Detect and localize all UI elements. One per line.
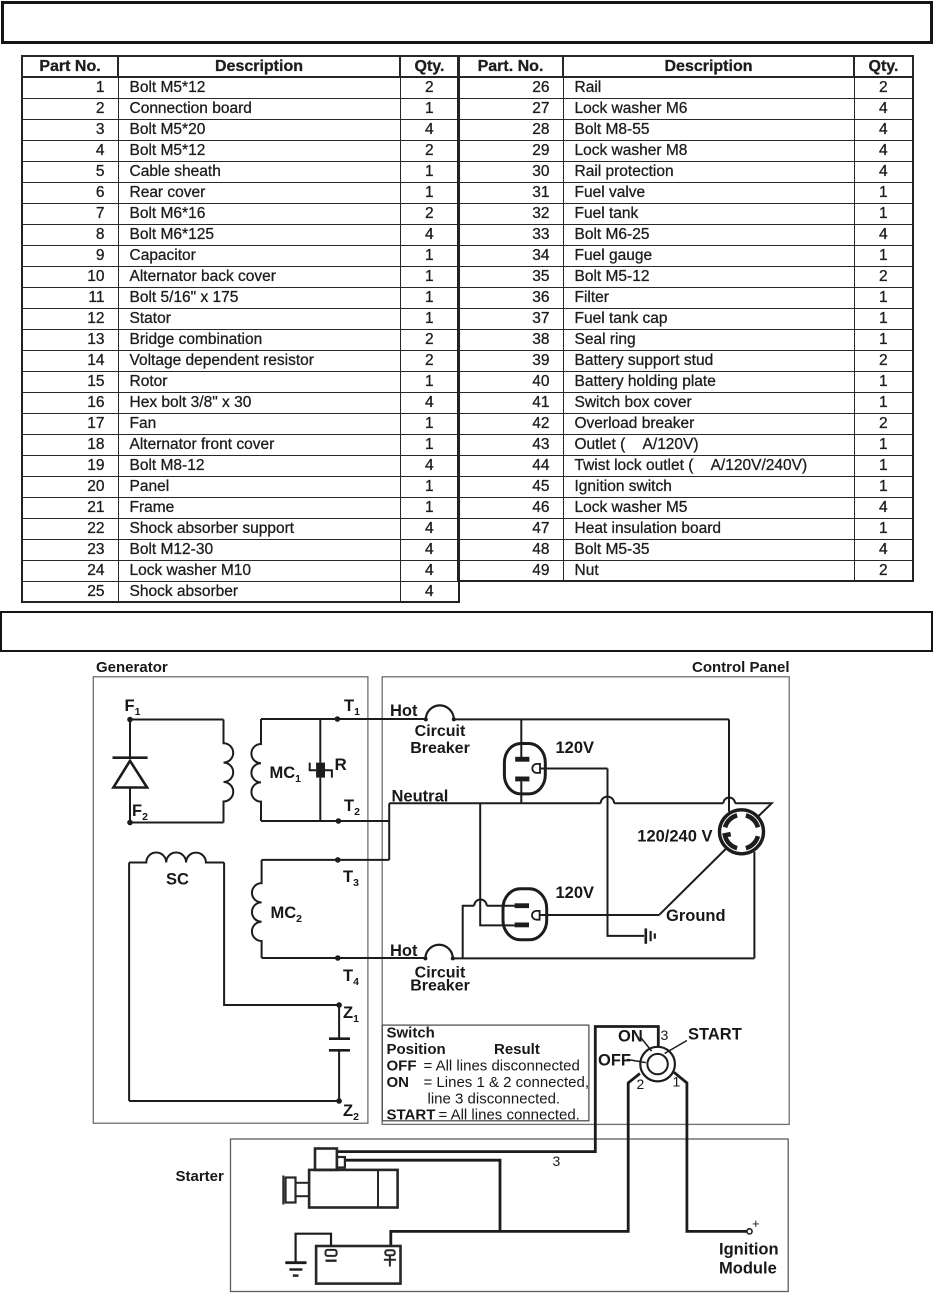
svg-text:Generator: Generator — [96, 659, 168, 676]
outlet J1 neutral slot — [515, 777, 529, 782]
wire varistor R bottom lead — [319, 778, 321, 821]
earth ground symbol E1 — [644, 928, 647, 943]
wire MC2 to T4 — [262, 957, 338, 959]
svg-text:3: 3 — [553, 1153, 561, 1169]
varistor R body — [316, 763, 325, 778]
wire T1 to MC1 — [261, 718, 337, 720]
svg-text:Ignition: Ignition — [719, 1241, 779, 1259]
wire T3 to MC2 — [262, 859, 338, 861]
battery positive sign — [384, 1255, 396, 1266]
pointer line OFF — [627, 1059, 646, 1062]
wire F2 bottom — [130, 822, 224, 824]
svg-text:F1: F1 — [125, 697, 141, 718]
wire varistor R top lead — [319, 719, 321, 763]
svg-text:Z1: Z1 — [343, 1004, 359, 1025]
svg-text:= Lines 1 & 2 connected,: = Lines 1 & 2 connected, — [424, 1074, 590, 1091]
svg-text:= All lines connected.: = All lines connected. — [439, 1107, 580, 1124]
twist lock J3 arc SE — [746, 836, 758, 848]
svg-text:F2: F2 — [132, 802, 148, 823]
outlet J2 hot slot — [515, 903, 529, 908]
wire solenoid contact to battery line — [345, 1160, 500, 1231]
svg-text:3: 3 — [661, 1027, 669, 1043]
wire T3 to neutral riser — [338, 859, 389, 861]
circuit breaker CB1 left dot — [424, 717, 428, 721]
svg-text:+: + — [752, 1216, 760, 1231]
wire neutral drop to outlet2 — [480, 803, 514, 925]
battery negative sign — [326, 1259, 337, 1261]
diode D1 triangle — [113, 761, 147, 788]
svg-text:MC2: MC2 — [271, 904, 303, 925]
node T1 — [335, 716, 341, 722]
ignition module plus terminal — [747, 1229, 752, 1234]
wire T4 to hot breaker2 — [338, 957, 426, 959]
earth ground symbol E2 — [285, 1261, 306, 1264]
capacitor C1 top plate — [329, 1037, 350, 1040]
second title box (empty) — [0, 611, 933, 652]
svg-text:START: START — [387, 1107, 436, 1124]
svg-text:120V: 120V — [556, 884, 595, 902]
wire SC bottom to Z2 — [129, 1100, 339, 1102]
hot hop over neutral drop — [474, 899, 487, 905]
svg-text:1: 1 — [673, 1074, 681, 1090]
wire diode anode — [129, 720, 131, 758]
svg-text:R: R — [335, 755, 347, 774]
svg-text:Hot: Hot — [390, 702, 418, 720]
wire line1 switch to ignition module — [674, 1072, 747, 1231]
diode D1 cathode bar — [113, 756, 148, 759]
svg-text:Module: Module — [719, 1260, 777, 1278]
pointer line ON — [640, 1037, 652, 1052]
svg-text:= All lines disconnected: = All lines disconnected — [424, 1058, 580, 1075]
outlet J1 hot slot — [515, 757, 529, 762]
wire F1 top — [130, 719, 224, 721]
varistor R right hook — [325, 770, 332, 777]
node F2 — [127, 820, 133, 826]
svg-text:Neutral: Neutral — [392, 788, 449, 806]
starter solenoid box — [315, 1149, 337, 1170]
pointer line START — [665, 1041, 687, 1054]
svg-text:Z2: Z2 — [343, 1102, 359, 1123]
wire hot riser to outlet2 — [463, 906, 475, 959]
svg-text:Result: Result — [494, 1041, 540, 1058]
twist lock J3 arc SW with hook — [725, 834, 737, 848]
wire hot bus top — [454, 718, 729, 720]
svg-text:Starter: Starter — [176, 1168, 225, 1185]
node T4 — [335, 955, 341, 961]
neutral hop over ground drop — [601, 797, 614, 804]
svg-text:2: 2 — [637, 1076, 645, 1092]
wire capacitor bottom lead — [338, 1050, 340, 1101]
node F1 — [127, 717, 133, 723]
circuit breaker CB1 right dot — [452, 717, 456, 721]
svg-text:OFF: OFF — [598, 1052, 631, 1070]
wire hop to outlet2 hot slot — [487, 905, 515, 907]
starter shaft lower line — [296, 1195, 310, 1197]
starter motor end cap line — [377, 1170, 379, 1208]
wire diode to F2 — [129, 788, 131, 823]
battery B1 body — [316, 1246, 400, 1284]
wire SC right leg to Z1 — [224, 863, 339, 1006]
svg-text:T2: T2 — [344, 797, 360, 818]
wire neutral bus mid — [614, 802, 723, 804]
wire drop to outlet1 hot pin — [520, 719, 522, 757]
circuit breaker CB2 right dot — [451, 956, 455, 960]
wire SC left leg — [128, 863, 130, 1102]
svg-text:T3: T3 — [343, 868, 359, 889]
svg-text:Control Panel: Control Panel — [692, 659, 790, 676]
svg-text:Hot: Hot — [390, 942, 418, 960]
svg-text:Switch: Switch — [387, 1025, 435, 1042]
right parts table — [457, 55, 914, 582]
svg-text:120V: 120V — [556, 739, 595, 757]
neutral hop over hot drop — [723, 798, 735, 804]
top title box (empty) — [1, 1, 933, 44]
circuit breaker CB2 arc — [425, 945, 452, 959]
twist lock J3 arc NW — [725, 815, 737, 827]
wire neutral bus — [389, 802, 601, 804]
wire battery negative to earth — [296, 1234, 331, 1263]
svg-text:ON: ON — [618, 1028, 643, 1046]
wire outlet2 ground lead — [540, 914, 660, 916]
battery negative post — [326, 1250, 337, 1256]
starter solenoid terminal — [337, 1157, 345, 1168]
ignition switch S1 inner ring — [647, 1054, 667, 1074]
wire T2 to neutral riser — [338, 820, 389, 822]
wire neutral bus right — [735, 803, 772, 816]
circuit breaker CB2 left dot — [423, 956, 427, 960]
wire hot bus bottom — [453, 957, 755, 959]
wire ground diagonal to twistlock — [660, 849, 727, 915]
node T3 — [335, 857, 341, 863]
wire MC1 to T2 — [261, 820, 338, 822]
svg-text:120/240 V: 120/240 V — [637, 828, 712, 846]
wire T1 to hot breaker — [337, 718, 425, 720]
main winding MC1 coil — [251, 719, 261, 821]
svg-text:Position: Position — [387, 1041, 446, 1058]
svg-text:Breaker: Breaker — [410, 740, 470, 757]
varistor R left hook — [310, 763, 316, 771]
svg-text:Circuit: Circuit — [415, 723, 466, 740]
outlet J1 body 120V — [504, 744, 545, 794]
capacitor C1 bottom plate — [329, 1049, 350, 1052]
exciter winding SC coil — [129, 853, 224, 863]
starter bolt end line — [282, 1176, 284, 1205]
starter shaft upper line — [296, 1182, 310, 1184]
svg-text:START: START — [688, 1026, 742, 1044]
wire hot drop to twistlock — [728, 719, 730, 811]
control panel enclosure box — [382, 677, 789, 1125]
svg-text:MC1: MC1 — [270, 764, 302, 785]
wire ground drop — [608, 769, 645, 936]
wire line2 switch to battery — [391, 1074, 640, 1247]
svg-text:ON: ON — [387, 1074, 410, 1091]
twist lock J3 arc NE — [746, 815, 758, 827]
twist lock outlet J3 ring — [720, 810, 764, 854]
wire outlet1 ground lead — [540, 768, 608, 770]
switch legend box — [382, 1025, 589, 1121]
outlet J1 ground hole — [532, 764, 540, 773]
starter shaft bolt head — [286, 1178, 296, 1203]
left parts table — [21, 55, 460, 603]
circuit breaker CB1 arc — [426, 705, 454, 719]
wire capacitor top lead — [338, 1005, 340, 1039]
svg-text:T4: T4 — [343, 967, 359, 988]
wire line3 switch to solenoid — [337, 1027, 658, 1152]
wire outlet1 neutral pin down — [520, 781, 522, 803]
svg-text:line 3 disconnected.: line 3 disconnected. — [428, 1091, 561, 1108]
battery positive post — [385, 1250, 394, 1255]
outlet J2 ground hole — [532, 911, 540, 920]
svg-text:Breaker: Breaker — [410, 978, 470, 995]
svg-text:Ground: Ground — [666, 907, 726, 925]
node Z1 — [336, 1002, 342, 1008]
wire twistlock to bottom hot — [753, 852, 755, 959]
svg-text:SC: SC — [166, 871, 189, 889]
starter motor body — [309, 1170, 398, 1208]
wire neutral riser from T2 T3 — [388, 803, 390, 860]
outlet J2 neutral slot — [515, 923, 529, 928]
outlet J2 body 120V — [503, 889, 547, 940]
svg-text:OFF: OFF — [387, 1058, 417, 1075]
ignition switch S1 outer ring — [640, 1047, 675, 1082]
svg-text:T1: T1 — [344, 697, 360, 718]
node T2 — [336, 818, 342, 824]
node Z2 — [336, 1098, 342, 1104]
field winding coil — [224, 720, 234, 823]
main winding MC2 coil — [252, 860, 262, 958]
starter enclosure box — [231, 1139, 789, 1292]
generator enclosure box — [93, 677, 368, 1123]
